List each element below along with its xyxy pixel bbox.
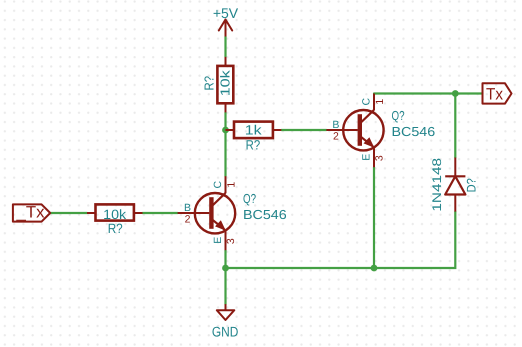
svg-text:1N4148: 1N4148 — [430, 158, 444, 212]
svg-text:GND: GND — [212, 324, 239, 340]
svg-text:Q?: Q? — [392, 108, 405, 123]
svg-text:D?: D? — [465, 178, 479, 192]
svg-text:BC546: BC546 — [243, 207, 287, 222]
svg-text:1k: 1k — [245, 123, 262, 138]
svg-text:3: 3 — [225, 238, 237, 244]
svg-text:R?: R? — [246, 137, 261, 152]
svg-text:1: 1 — [226, 182, 238, 188]
svg-text:2: 2 — [185, 213, 191, 225]
svg-text:E: E — [361, 154, 373, 161]
svg-text:1: 1 — [374, 99, 386, 105]
svg-text:C: C — [360, 97, 372, 105]
svg-text:+5V: +5V — [213, 5, 239, 21]
svg-text:10k: 10k — [218, 70, 233, 97]
svg-text:R?: R? — [202, 76, 217, 91]
svg-text:E: E — [212, 237, 224, 244]
svg-text:2: 2 — [333, 130, 339, 142]
svg-text:C: C — [212, 180, 224, 188]
svg-text:10k: 10k — [103, 207, 126, 222]
svg-text:Q?: Q? — [243, 191, 256, 206]
svg-text:B: B — [332, 119, 339, 131]
svg-text:R?: R? — [108, 221, 123, 236]
svg-text:_Tx: _Tx — [15, 203, 45, 221]
svg-text:B: B — [184, 202, 191, 214]
svg-text:BC546: BC546 — [392, 124, 436, 139]
svg-text:Tx: Tx — [486, 86, 504, 104]
svg-text:3: 3 — [374, 155, 386, 161]
